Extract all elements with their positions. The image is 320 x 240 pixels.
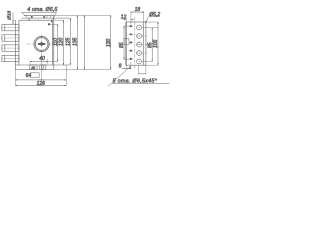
- csk hole 2: [137, 34, 142, 39]
- svg-text:120: 120: [59, 37, 65, 46]
- keyhole centerline horizontal: [27, 43, 56, 45]
- bottom slot right: [40, 65, 46, 69]
- extension keyhole center down: [41, 54, 43, 81]
- top right mounting hole: [48, 23, 50, 25]
- bolt 3: [2, 45, 19, 51]
- leader arrow to top hole: [22, 12, 31, 20]
- csk hole 1: [137, 25, 142, 30]
- extension inner top right: [52, 19, 63, 21]
- side plate outline: [126, 22, 143, 65]
- side plate inner edge left: [124, 22, 126, 65]
- keyhole slot: [38, 43, 45, 45]
- body inner outline: [19, 20, 52, 65]
- bolt 2: [2, 35, 19, 41]
- svg-text:135: 135: [73, 37, 79, 46]
- svg-text:126: 126: [37, 81, 46, 87]
- side plate centerline: [134, 17, 136, 68]
- bottom slot left: [30, 65, 37, 69]
- keyhole boss side view: [124, 39, 129, 45]
- svg-text:125: 125: [66, 37, 72, 46]
- leader 2 to top right hole: [51, 12, 57, 22]
- extension outer bottom right: [54, 69, 111, 71]
- svg-text:4 отв. Ø6,5: 4 отв. Ø6,5: [27, 7, 57, 13]
- bottom hole right: [42, 66, 44, 68]
- svg-text:8: 8: [119, 64, 122, 70]
- bolt 1: [2, 24, 19, 30]
- leader of bottom label: [108, 66, 131, 86]
- side plate outer right edge: [145, 22, 147, 65]
- svg-text:105: 105: [153, 39, 159, 48]
- bolt 4: [2, 55, 19, 61]
- side plate top/bottom edge extension to outer right: [144, 22, 146, 65]
- extension plate bottom right: [144, 64, 159, 66]
- svg-text:Ø5,2: Ø5,2: [148, 12, 160, 18]
- top mounting hole left: [31, 16, 33, 18]
- extension bolt4 bottom right: [48, 61, 58, 63]
- extension csk1 right: [142, 27, 159, 29]
- small hole 3: [129, 41, 134, 43]
- small hole 1: [129, 25, 134, 27]
- top band tick 1: [46, 15, 48, 18]
- extension right tab down: [65, 65, 67, 86]
- small hole 5: [129, 58, 134, 60]
- svg-text:Ø18: Ø18: [6, 11, 11, 21]
- tick left of plate corner: [12, 19, 15, 21]
- top band middle line: [22, 17, 71, 19]
- keyhole centerline vertical: [41, 35, 43, 54]
- csk hole 5: [137, 59, 142, 64]
- vdim col5: [83, 15, 85, 69]
- body inner bottom edge: [15, 64, 70, 66]
- top band tick 2: [50, 15, 52, 18]
- small hole 2: [129, 33, 134, 35]
- csk hole row centerlines: [136, 36, 148, 53]
- svg-text:20: 20: [30, 66, 35, 70]
- dim small under plate right: [138, 65, 146, 74]
- csk hole 4: [137, 51, 142, 56]
- plate outer outline: [15, 15, 53, 69]
- keyhole escutcheon ring: [34, 36, 49, 51]
- leader underline of top label: [22, 11, 57, 13]
- small hole 4: [129, 50, 134, 52]
- top mounting hole right: [43, 16, 45, 18]
- extension top edge right: [54, 14, 111, 16]
- csk hole 3: [137, 42, 142, 47]
- svg-text:130: 130: [106, 38, 112, 47]
- extension csk5 right: [142, 61, 153, 63]
- extension from top right hole: [50, 23, 58, 25]
- extension plate left down: [14, 70, 16, 87]
